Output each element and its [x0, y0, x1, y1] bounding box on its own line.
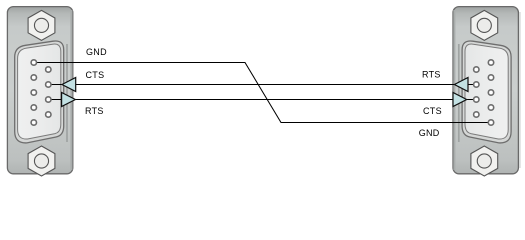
arrow left RTS (points right, output)	[62, 93, 76, 107]
J2 pin 8 (CTS)	[474, 97, 479, 102]
svg-text:CTS: CTS	[86, 70, 105, 80]
J1 pin 4	[31, 75, 36, 80]
connector J2 pin field	[474, 60, 494, 125]
arrow left CTS (points left, input)	[62, 78, 76, 92]
J1 pin 1	[31, 120, 36, 125]
svg-text:RTS: RTS	[422, 70, 441, 80]
wire: J2 RTS (pin 7) to J1 CTS (pin 8)	[48, 84, 476, 86]
wire GND net: J1 pin 5 to J2 pin 5	[34, 63, 491, 123]
svg-text:GND: GND	[86, 47, 107, 57]
arrow right RTS (points left, output of right)	[454, 78, 468, 92]
svg-text:GND: GND	[419, 128, 440, 138]
J1 pin 2	[31, 105, 36, 110]
connector J1 (DB9, left)	[7, 7, 72, 176]
J2 pin 2	[488, 75, 493, 80]
svg-text:CTS: CTS	[423, 106, 442, 116]
J1 pin 7 (RTS)	[46, 97, 51, 102]
J2 pin 4	[488, 105, 493, 110]
J2 pin 6	[474, 67, 479, 72]
J2 pin 7 (RTS)	[474, 82, 479, 87]
J1 pin 6	[46, 112, 51, 117]
J2 pin 1	[488, 60, 493, 65]
J1 pin 3	[31, 90, 36, 95]
J1 pin 9	[46, 67, 51, 72]
J1 pin 5 (GND)	[31, 60, 36, 65]
connector J2 (DB9, right, mirrored)	[453, 7, 518, 176]
svg-text:RTS: RTS	[85, 106, 104, 116]
J2 pin 9	[474, 112, 479, 117]
right body outer halo	[519, 12, 521, 168]
arrow right CTS (points right, input of right)	[453, 93, 467, 107]
connector J1 pin field	[31, 60, 51, 125]
J2 pin 5 (GND)	[488, 120, 493, 125]
J2 pin 3	[488, 90, 493, 95]
wire: J1 RTS (pin 7) to J2 CTS (pin 8)	[48, 99, 476, 101]
J1 pin 8 (CTS)	[46, 82, 51, 87]
